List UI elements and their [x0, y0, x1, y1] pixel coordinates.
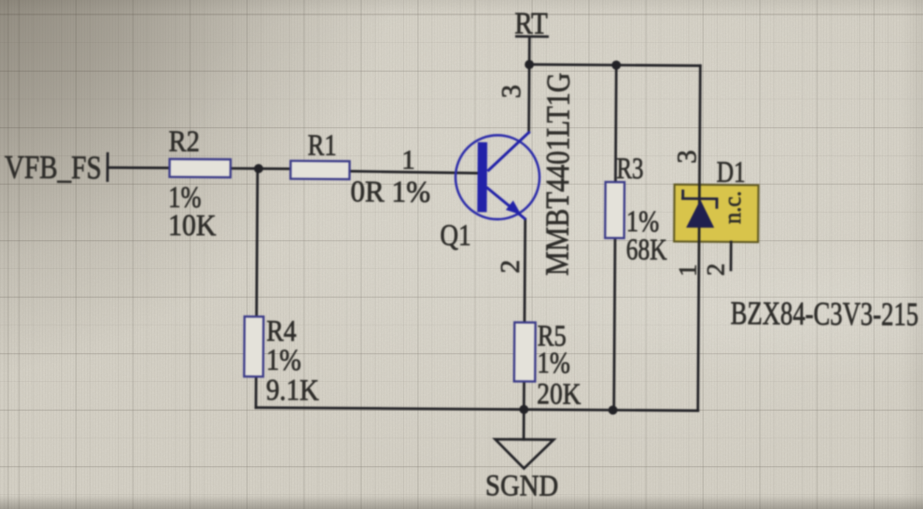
svg-text:0R 1%: 0R 1% — [350, 175, 430, 209]
svg-text:68K: 68K — [626, 233, 667, 266]
svg-text:1%: 1% — [266, 344, 301, 377]
svg-text:R2: R2 — [169, 125, 200, 158]
svg-text:2: 2 — [495, 260, 525, 274]
svg-text:1%: 1% — [537, 347, 570, 380]
svg-text:9.1K: 9.1K — [266, 374, 320, 407]
svg-text:MMBT4401LT1G: MMBT4401LT1G — [540, 73, 577, 276]
svg-text:n.c.: n.c. — [720, 191, 746, 224]
svg-text:3: 3 — [496, 85, 526, 99]
svg-text:3: 3 — [672, 150, 702, 164]
svg-text:20K: 20K — [537, 378, 582, 411]
svg-text:R1: R1 — [308, 129, 337, 162]
svg-text:1: 1 — [402, 145, 416, 175]
svg-text:1: 1 — [675, 264, 702, 277]
svg-text:SGND: SGND — [485, 469, 558, 503]
svg-text:Q1: Q1 — [440, 219, 471, 252]
svg-text:R3: R3 — [616, 152, 643, 185]
svg-text:RT: RT — [514, 5, 547, 40]
svg-text:2: 2 — [703, 263, 730, 276]
svg-text:D1: D1 — [716, 156, 745, 189]
svg-text:10K: 10K — [168, 209, 217, 242]
svg-text:VFB_FS: VFB_FS — [4, 150, 101, 187]
svg-text:BZX84-C3V3-215: BZX84-C3V3-215 — [730, 296, 918, 333]
